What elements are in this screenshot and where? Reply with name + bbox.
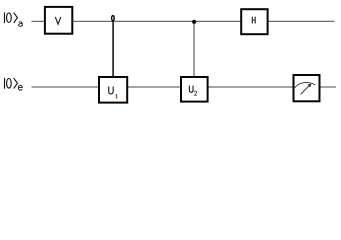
node |0>a (ancilla input label) bbox=[5, 12, 23, 26]
wire bottom: gate U2 to meter bbox=[207, 86, 294, 88]
wire bottom: gate U1 to gate U2 bbox=[127, 86, 181, 88]
control: open circle on wire a bbox=[112, 16, 115, 21]
gate U1 (box) bbox=[99, 77, 127, 103]
control: filled dot on wire a bbox=[192, 20, 196, 24]
wire top: gate H to right end bbox=[268, 20, 335, 22]
wire: control line from dot down to U2 bbox=[193, 23, 195, 77]
gate H (box) bbox=[241, 9, 267, 34]
meter needle arrowhead bbox=[307, 84, 311, 88]
node |0>e (environment input label) bbox=[5, 78, 23, 90]
meter M (measurement box) bbox=[294, 75, 320, 101]
meter needle bbox=[301, 86, 309, 94]
wire top: label to gate V bbox=[32, 20, 46, 22]
wire top: gate V to gate H bbox=[73, 20, 241, 22]
meter arc bbox=[295, 82, 316, 87]
gate V (box) bbox=[45, 7, 72, 34]
wire: control line from open circle down to U1 bbox=[112, 21, 114, 77]
gate U2 (box) bbox=[181, 77, 208, 102]
wire bottom: label to gate U1 bbox=[32, 86, 100, 88]
wire bottom: meter to right end bbox=[319, 86, 336, 88]
